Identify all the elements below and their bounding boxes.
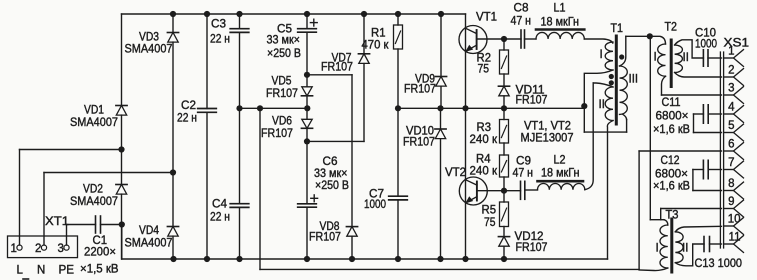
svg-text:470 к: 470 к: [362, 40, 390, 52]
svg-text:C12: C12: [661, 155, 680, 167]
label VD4: [139, 225, 160, 237]
svg-text:22 н: 22 н: [177, 112, 197, 124]
svg-text:R1: R1: [371, 28, 386, 40]
transformer T2 core: [670, 40, 673, 87]
svg-text:C9: C9: [516, 155, 531, 167]
label C12 value2: [653, 181, 690, 193]
svg-text:1: 1: [728, 45, 734, 57]
label C4 value: [210, 212, 230, 224]
label VT2: [445, 167, 466, 179]
label C2: [181, 100, 196, 112]
connector pin 3: [724, 82, 744, 103]
transformer T1 winding II: [593, 83, 613, 259]
label C7 value: [364, 199, 386, 211]
connector pin 11: [724, 231, 744, 252]
svg-text:C3: C3: [211, 19, 226, 31]
label VD2 type: [70, 196, 118, 208]
svg-text:R5: R5: [482, 205, 497, 217]
svg-text:FR107: FR107: [516, 95, 548, 107]
label C4: [212, 199, 228, 211]
transformer T1 core: [615, 36, 618, 124]
svg-text:×1,6 кВ: ×1,6 кВ: [653, 181, 690, 193]
svg-text:×1,6 кВ: ×1,6 кВ: [653, 124, 690, 136]
svg-text:18 мкГн: 18 мкГн: [541, 168, 580, 180]
label C1 value 1,5kV: [80, 264, 119, 276]
label R2: [477, 53, 492, 65]
svg-text:1: 1: [11, 243, 17, 255]
label VD6: [272, 116, 292, 128]
svg-text:FR107: FR107: [404, 84, 436, 96]
transformer T3 winding I: [639, 220, 668, 271]
svg-text:2200×: 2200×: [84, 247, 116, 259]
label VD7: [332, 53, 352, 65]
svg-text:SMA4007: SMA4007: [125, 237, 173, 249]
label C11: [662, 97, 681, 109]
capacitor C1: [96, 216, 122, 233]
label C11 value: [656, 111, 689, 123]
label C6 plus: [311, 195, 318, 202]
label C13: [695, 258, 743, 270]
label R5: [482, 205, 497, 217]
svg-text:VT2: VT2: [445, 167, 466, 179]
label VD10 type: [403, 137, 435, 149]
label C7: [369, 189, 384, 201]
label C3 value: [210, 33, 230, 45]
wire L2 to T1 winding II: [585, 83, 593, 190]
svg-text:22 н: 22 н: [210, 212, 230, 224]
label L1 value: [541, 16, 580, 28]
svg-text:VD4: VD4: [139, 225, 160, 237]
diode VD6: [301, 108, 312, 141]
svg-text:L: L: [17, 265, 24, 277]
label C5 value: [267, 35, 301, 47]
svg-text:II: II: [682, 243, 688, 255]
svg-text:L1: L1: [554, 3, 566, 15]
svg-text:R3: R3: [477, 122, 492, 134]
svg-text:×250 В: ×250 В: [315, 180, 349, 192]
diode VD10: [435, 108, 446, 262]
label VD12 type: [516, 242, 548, 254]
label VD5 type: [266, 88, 298, 100]
label VD1: [84, 105, 104, 117]
polarity dot T1 winding III: [619, 54, 624, 59]
svg-text:6800×: 6800×: [656, 111, 689, 123]
svg-text:SMA4007: SMA4007: [70, 117, 118, 129]
resistor R1: [394, 11, 403, 108]
label R1: [371, 28, 386, 40]
capacitor C12: [693, 160, 722, 190]
svg-text:5: 5: [728, 120, 734, 132]
bottom supply rail: [122, 225, 608, 260]
svg-text:C5: C5: [277, 24, 292, 36]
transformer T3 core: [670, 219, 673, 272]
svg-text:2: 2: [35, 243, 41, 255]
label VD6 type: [261, 128, 293, 140]
wire T1 to T2 top node: [626, 33, 653, 39]
svg-text:C11: C11: [662, 97, 681, 109]
capacitor C5: [298, 11, 317, 75]
label C12 value: [655, 169, 688, 181]
svg-text:T2: T2: [665, 22, 678, 34]
label VD9 type: [404, 84, 436, 96]
label L1: [554, 3, 566, 15]
label MJE13007: [521, 132, 574, 144]
label N: [37, 265, 45, 277]
label T2 winding I: [654, 52, 657, 64]
svg-text:VD1: VD1: [84, 105, 104, 117]
svg-text:4: 4: [728, 101, 735, 113]
connector XS1 body: [720, 52, 723, 248]
svg-text:3: 3: [58, 243, 64, 255]
svg-text:1000: 1000: [364, 199, 386, 211]
label C6: [323, 156, 338, 168]
polarity dot T1 winding I: [609, 74, 614, 79]
svg-text:C10: C10: [695, 27, 716, 39]
transformer T1 winding III: [620, 36, 628, 119]
capacitor C11: [694, 105, 722, 133]
label VD2: [83, 184, 103, 196]
svg-text:2: 2: [728, 64, 734, 76]
diode VD4: [167, 227, 178, 237]
capacitor C6: [298, 138, 317, 262]
label R3 value: [470, 134, 498, 146]
svg-text:47 н: 47 н: [513, 168, 534, 180]
svg-text:C6: C6: [323, 156, 338, 168]
caption fragment: [23, 278, 29, 280]
label T3: [666, 209, 679, 221]
svg-text:C13 1000: C13 1000: [695, 258, 743, 270]
label C10: [695, 27, 716, 39]
svg-text:×1,5 кВ: ×1,5 кВ: [80, 264, 119, 276]
capacitor C13: [704, 237, 721, 252]
svg-text:VD2: VD2: [83, 184, 103, 196]
diode VD8: [307, 75, 358, 262]
top supply rail: [122, 13, 466, 15]
label T1 winding III: [629, 73, 639, 85]
svg-text:SMA4007: SMA4007: [125, 44, 173, 56]
svg-text:II: II: [683, 52, 689, 64]
svg-text:L2: L2: [554, 154, 566, 166]
connector pin 2: [724, 64, 744, 85]
svg-text:7: 7: [728, 157, 734, 169]
capacitor C4: [230, 108, 249, 262]
svg-text:SMA4007: SMA4007: [70, 196, 118, 208]
svg-text:II: II: [599, 99, 605, 111]
svg-text:47 н: 47 н: [511, 16, 532, 28]
wire N terminal to bridge: [44, 173, 173, 246]
label L: [17, 265, 24, 277]
svg-text:1000: 1000: [695, 39, 717, 51]
connector pin 10: [724, 213, 744, 234]
wire left bridge vertical: [118, 14, 125, 259]
mid bus right: [395, 105, 584, 111]
wire top node to T3: [650, 36, 664, 219]
svg-text:FR107: FR107: [309, 232, 341, 244]
label C8 value: [511, 16, 532, 28]
diode VD1: [116, 106, 127, 116]
diode VD5: [301, 72, 312, 109]
svg-text:3: 3: [728, 82, 734, 94]
connector pin 6: [724, 138, 744, 159]
svg-text:I: I: [654, 52, 657, 64]
label C6 value2: [315, 180, 349, 192]
label R3: [477, 122, 492, 134]
label L2: [554, 154, 566, 166]
label R2 value: [478, 63, 490, 75]
label C10 value: [695, 39, 717, 51]
transistor VT1: [459, 14, 504, 108]
label VD3 type: [125, 44, 173, 56]
svg-text:C4: C4: [212, 199, 228, 211]
svg-text:10: 10: [728, 213, 741, 225]
polarity dot T1 winding II: [609, 80, 614, 85]
connector pin 8: [724, 178, 744, 199]
connector pin 5: [724, 120, 744, 141]
transistor VT2: [459, 108, 504, 262]
label VD11 type: [516, 95, 548, 107]
svg-text:R4: R4: [476, 154, 491, 166]
label T1 winding I: [600, 49, 603, 61]
connector pin 4: [724, 101, 744, 122]
label R5 value: [484, 217, 496, 229]
inductor L1: [536, 30, 584, 40]
svg-text:III: III: [629, 73, 639, 85]
label T3 winding I: [656, 243, 659, 255]
capacitor C2: [198, 11, 217, 262]
label VD11: [516, 85, 545, 97]
diode VD3: [167, 33, 178, 43]
svg-text:C8: C8: [514, 3, 529, 15]
svg-text:×250 В: ×250 В: [267, 48, 301, 60]
svg-text:FR107: FR107: [261, 128, 293, 140]
label VD3: [139, 32, 159, 44]
wire L terminal to bridge: [20, 150, 122, 246]
resistor R3: [500, 108, 509, 155]
label VD8: [320, 221, 340, 233]
label C12: [661, 155, 680, 167]
label XT1: [45, 216, 69, 228]
svg-text:FR107: FR107: [266, 88, 298, 100]
label C5: [277, 24, 292, 36]
label L2 value: [541, 168, 580, 180]
label T1 winding II: [599, 99, 605, 111]
svg-text:33 мк×: 33 мк×: [267, 35, 301, 47]
label C9 value: [513, 168, 534, 180]
diode VD11: [498, 86, 509, 108]
svg-text:240 к: 240 к: [470, 134, 498, 146]
label VT1: [476, 11, 497, 23]
svg-text:9: 9: [728, 196, 734, 208]
svg-text:XT1: XT1: [45, 216, 69, 228]
capacitor C9: [504, 181, 538, 199]
svg-text:I: I: [600, 49, 603, 61]
svg-text:VT1, VT2: VT1, VT2: [524, 120, 571, 132]
wire PE terminal to C1: [67, 225, 96, 246]
label VD12: [515, 231, 544, 243]
label R1 value: [362, 40, 390, 52]
wire T2 winding I to pin3: [662, 94, 722, 96]
svg-text:11: 11: [729, 231, 741, 243]
label R4: [476, 154, 491, 166]
label XS1: [724, 37, 750, 49]
svg-text:6800×: 6800×: [655, 169, 688, 181]
svg-text:8: 8: [728, 178, 734, 190]
label VD10: [406, 126, 434, 138]
label VD7 type: [321, 61, 353, 73]
svg-text:FR107: FR107: [516, 242, 548, 254]
label VD8 type: [309, 232, 341, 244]
label C8: [514, 3, 529, 15]
label C5 value2: [267, 48, 301, 60]
mid bus left: [236, 105, 310, 111]
connector pin 7: [724, 157, 744, 178]
wire right bridge vertical: [170, 11, 177, 262]
label C6 value: [314, 168, 348, 180]
capacitor C8: [504, 30, 536, 48]
svg-text:VD6: VD6: [272, 116, 292, 128]
wire T1 winding I to mid node: [581, 70, 626, 132]
label VD9: [415, 74, 435, 86]
transformer T2 winding II: [675, 40, 722, 77]
resistor R2: [500, 36, 509, 86]
svg-text:MJE13007: MJE13007: [521, 132, 574, 144]
label T3 winding II: [682, 243, 688, 255]
label T2 winding II: [683, 52, 689, 64]
svg-text:C1: C1: [93, 235, 108, 247]
capacitor C7: [389, 108, 408, 262]
svg-text:VT1: VT1: [476, 11, 497, 23]
svg-text:VD3: VD3: [139, 32, 159, 44]
connector pin 1: [724, 45, 744, 66]
wire L1 to T1: [584, 39, 613, 43]
diode VD9: [435, 11, 446, 108]
label VD4 type: [125, 237, 173, 249]
svg-text:N: N: [37, 265, 45, 277]
wire pin6 to bottom link: [639, 151, 721, 269]
svg-text:75: 75: [484, 217, 496, 229]
svg-text:VD5: VD5: [272, 76, 292, 88]
transformer T3 winding II: [675, 226, 721, 265]
wire pin9 lead: [661, 209, 722, 220]
svg-text:75: 75: [478, 63, 490, 75]
wire mid bus to output link: [260, 108, 639, 269]
connector pin 9: [724, 196, 744, 217]
terminal block XT1: [8, 236, 78, 258]
label VT1 VT2 types: [524, 120, 571, 132]
label T1: [611, 23, 624, 35]
svg-text:PE: PE: [59, 265, 75, 277]
svg-text:6: 6: [728, 138, 734, 150]
label VD5: [272, 76, 292, 88]
label C2 value: [177, 112, 197, 124]
label C1 value 2200: [84, 247, 116, 259]
svg-text:33 мк×: 33 мк×: [314, 168, 348, 180]
diode VD2: [116, 185, 127, 195]
diode VD7: [307, 11, 370, 142]
diode VD12: [498, 237, 509, 263]
label T2: [665, 22, 678, 34]
svg-text:240 к: 240 к: [470, 166, 498, 178]
label C3: [211, 19, 226, 31]
capacitor C3: [230, 11, 249, 108]
inductor L2: [538, 181, 585, 190]
transformer T1 winding I: [605, 42, 613, 70]
label C11 value2: [653, 124, 690, 136]
svg-text:FR107: FR107: [321, 61, 353, 73]
svg-text:22 н: 22 н: [210, 33, 230, 45]
resistor R5: [500, 188, 509, 237]
svg-text:18 мкГн: 18 мкГн: [541, 16, 580, 28]
svg-text:C2: C2: [181, 100, 196, 112]
capacitor C10: [703, 50, 721, 66]
transformer T2 winding I: [650, 36, 666, 95]
svg-text:I: I: [656, 243, 659, 255]
label R4 value: [470, 166, 498, 178]
label C5 plus: [310, 19, 317, 26]
label C9: [516, 155, 531, 167]
label C1: [93, 235, 108, 247]
label PE: [59, 265, 75, 277]
svg-text:FR107: FR107: [403, 137, 435, 149]
resistor R4: [500, 155, 509, 191]
svg-text:T1: T1: [611, 23, 624, 35]
label VD1 type: [70, 117, 118, 129]
